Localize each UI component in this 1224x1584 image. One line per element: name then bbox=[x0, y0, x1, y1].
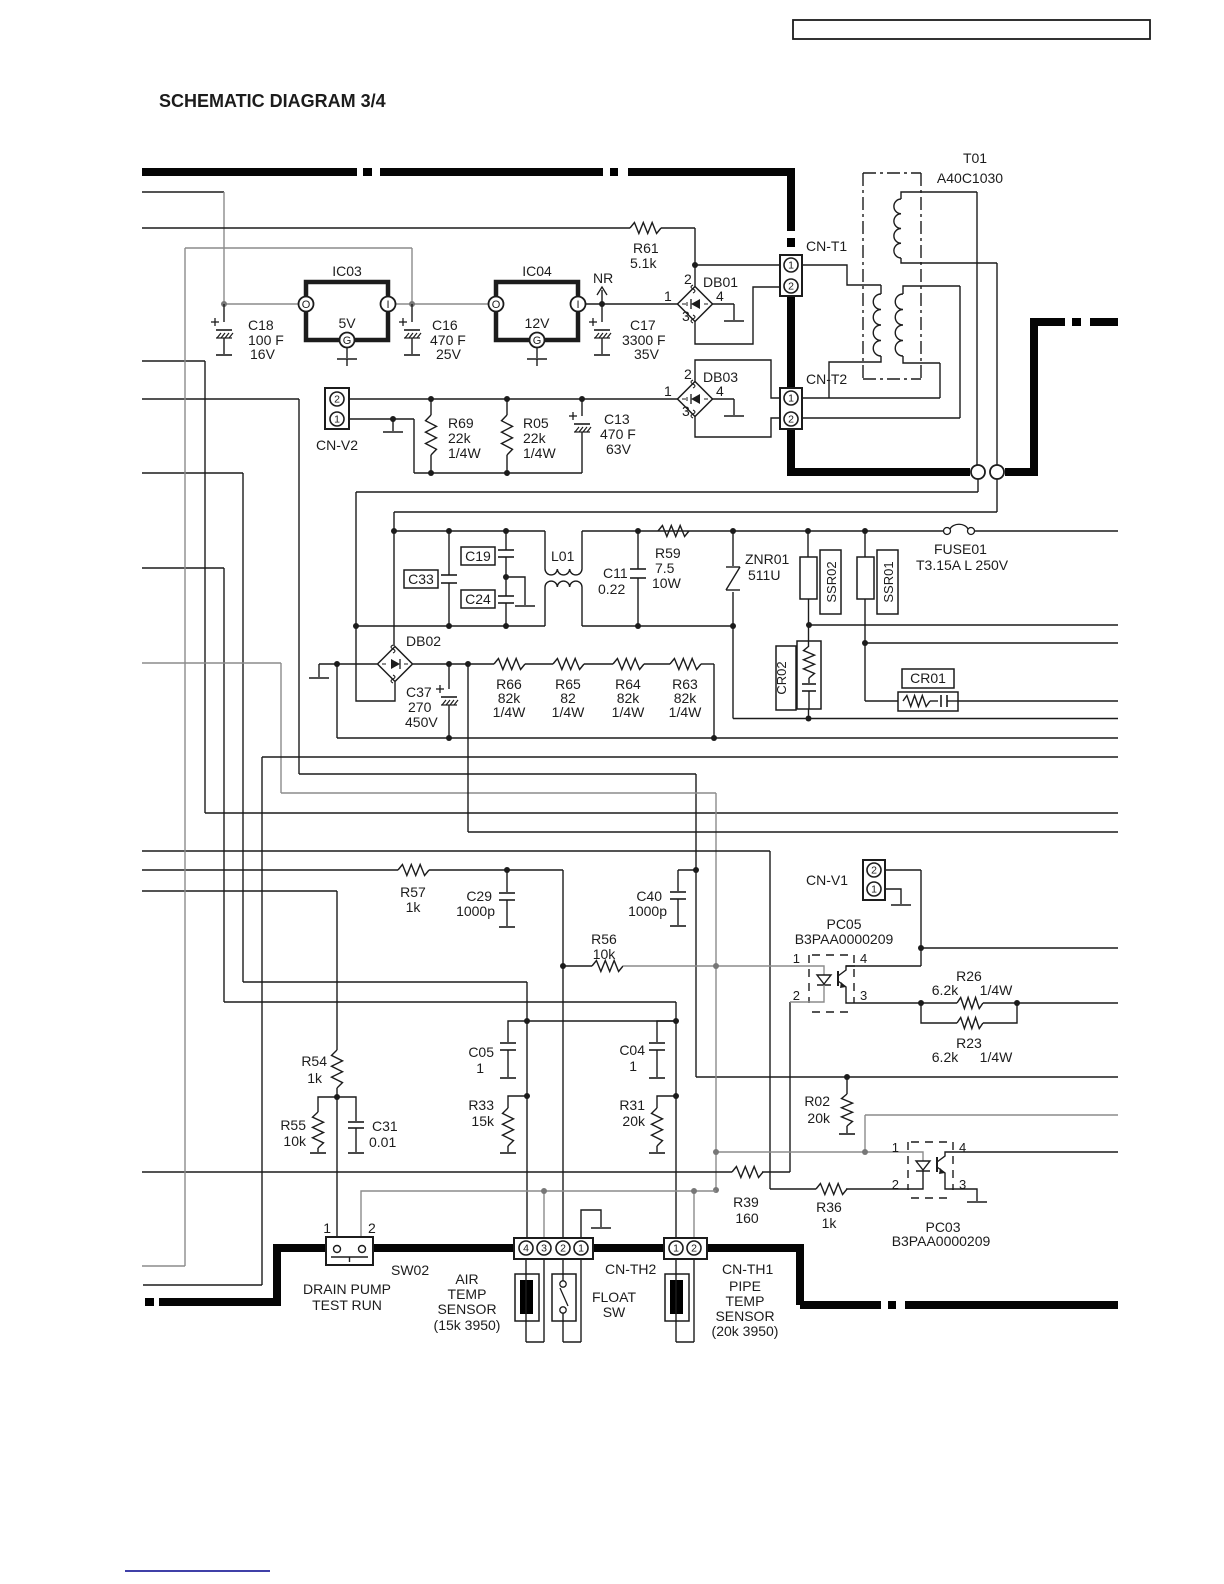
svg-text:SSR02: SSR02 bbox=[824, 561, 839, 602]
svg-text:10W: 10W bbox=[652, 575, 682, 591]
svg-text:TEMP: TEMP bbox=[726, 1293, 765, 1309]
svg-text:25V: 25V bbox=[436, 346, 462, 362]
svg-text:1/4W: 1/4W bbox=[980, 1049, 1013, 1065]
svg-text:3: 3 bbox=[541, 1243, 547, 1255]
svg-text:FUSE01: FUSE01 bbox=[934, 541, 987, 557]
svg-text:CN-TH1: CN-TH1 bbox=[722, 1261, 774, 1277]
svg-text:R26: R26 bbox=[956, 968, 982, 984]
svg-text:4: 4 bbox=[523, 1243, 529, 1255]
svg-text:6.2k: 6.2k bbox=[932, 982, 959, 998]
svg-text:10k: 10k bbox=[593, 946, 617, 962]
svg-text:PC05: PC05 bbox=[826, 916, 861, 932]
svg-text:R61: R61 bbox=[633, 240, 659, 256]
svg-text:1k: 1k bbox=[822, 1215, 838, 1231]
svg-text:1/4W: 1/4W bbox=[980, 982, 1013, 998]
svg-text:2: 2 bbox=[691, 1243, 697, 1255]
svg-text:0.22: 0.22 bbox=[598, 581, 625, 597]
svg-text:0.01: 0.01 bbox=[369, 1134, 396, 1150]
svg-text:R05: R05 bbox=[523, 415, 549, 431]
svg-text:22k: 22k bbox=[448, 430, 472, 446]
svg-text:C37: C37 bbox=[406, 684, 432, 700]
svg-text:1: 1 bbox=[788, 393, 794, 405]
svg-text:1: 1 bbox=[323, 1220, 331, 1236]
svg-text:TEMP: TEMP bbox=[448, 1286, 487, 1302]
svg-text:C04: C04 bbox=[619, 1042, 645, 1058]
svg-text:CN-T1: CN-T1 bbox=[806, 238, 847, 254]
svg-text:1/4W: 1/4W bbox=[612, 704, 645, 720]
svg-text:1/4W: 1/4W bbox=[448, 445, 481, 461]
svg-text:450V: 450V bbox=[405, 714, 438, 730]
svg-text:SW: SW bbox=[603, 1304, 626, 1320]
svg-text:15k: 15k bbox=[471, 1113, 495, 1129]
svg-text:C40: C40 bbox=[636, 888, 662, 904]
svg-text:35V: 35V bbox=[634, 346, 660, 362]
svg-text:2: 2 bbox=[368, 1220, 376, 1236]
svg-text:2: 2 bbox=[334, 394, 340, 406]
svg-text:R59: R59 bbox=[655, 545, 681, 561]
svg-text:1: 1 bbox=[871, 884, 877, 896]
svg-text:R36: R36 bbox=[816, 1199, 842, 1215]
svg-text:4: 4 bbox=[716, 288, 724, 304]
svg-text:I: I bbox=[576, 299, 579, 311]
svg-text:160: 160 bbox=[735, 1210, 759, 1226]
svg-text:T3.15A L 250V: T3.15A L 250V bbox=[916, 557, 1009, 573]
svg-text:1: 1 bbox=[629, 1058, 637, 1074]
svg-text:3: 3 bbox=[860, 988, 867, 1003]
svg-text:R69: R69 bbox=[448, 415, 474, 431]
svg-text:2: 2 bbox=[788, 281, 794, 293]
svg-text:1: 1 bbox=[673, 1243, 679, 1255]
svg-text:IC04: IC04 bbox=[522, 263, 552, 279]
svg-text:2: 2 bbox=[560, 1243, 566, 1255]
svg-text:C17: C17 bbox=[630, 317, 656, 333]
svg-text:1: 1 bbox=[334, 414, 340, 426]
svg-text:PIPE: PIPE bbox=[729, 1278, 761, 1294]
svg-text:1000p: 1000p bbox=[628, 903, 667, 919]
svg-text:I: I bbox=[386, 299, 389, 311]
svg-text:C19: C19 bbox=[465, 548, 491, 564]
svg-text:6.2k: 6.2k bbox=[932, 1049, 959, 1065]
svg-text:20k: 20k bbox=[622, 1113, 646, 1129]
svg-text:DB02: DB02 bbox=[406, 633, 441, 649]
svg-text:IC03: IC03 bbox=[332, 263, 362, 279]
svg-text:C16: C16 bbox=[432, 317, 458, 333]
svg-text:2: 2 bbox=[684, 271, 692, 287]
svg-text:2: 2 bbox=[684, 366, 692, 382]
svg-text:1000p: 1000p bbox=[456, 903, 495, 919]
svg-text:FLOAT: FLOAT bbox=[592, 1289, 637, 1305]
svg-text:SENSOR: SENSOR bbox=[715, 1308, 774, 1324]
svg-text:C18: C18 bbox=[248, 317, 274, 333]
svg-text:2: 2 bbox=[871, 865, 877, 877]
svg-text:C05: C05 bbox=[468, 1044, 494, 1060]
svg-text:1: 1 bbox=[793, 951, 800, 966]
svg-text:1/4W: 1/4W bbox=[669, 704, 702, 720]
svg-text:C13: C13 bbox=[604, 411, 630, 427]
svg-text:B3PAA0000209: B3PAA0000209 bbox=[795, 931, 894, 947]
svg-text:1: 1 bbox=[892, 1140, 899, 1155]
svg-text:1/4W: 1/4W bbox=[493, 704, 526, 720]
svg-text:R39: R39 bbox=[733, 1194, 759, 1210]
svg-text:1: 1 bbox=[476, 1060, 484, 1076]
svg-text:T01: T01 bbox=[963, 150, 987, 166]
svg-text:G: G bbox=[533, 335, 542, 347]
svg-text:SCHEMATIC DIAGRAM 3/4: SCHEMATIC DIAGRAM 3/4 bbox=[159, 91, 386, 111]
svg-text:R56: R56 bbox=[591, 931, 617, 947]
svg-text:2: 2 bbox=[892, 1177, 899, 1192]
svg-text:22k: 22k bbox=[523, 430, 547, 446]
svg-text:R54: R54 bbox=[301, 1053, 327, 1069]
svg-text:A40C1030: A40C1030 bbox=[937, 170, 1003, 186]
svg-text:C33: C33 bbox=[408, 571, 434, 587]
svg-text:CN-T2: CN-T2 bbox=[806, 371, 847, 387]
svg-text:G: G bbox=[343, 335, 352, 347]
svg-text:(15k 3950): (15k 3950) bbox=[434, 1317, 501, 1333]
svg-text:1: 1 bbox=[664, 288, 672, 304]
svg-text:20k: 20k bbox=[807, 1110, 831, 1126]
svg-text:R57: R57 bbox=[400, 884, 426, 900]
svg-text:4: 4 bbox=[716, 383, 724, 399]
svg-text:1k: 1k bbox=[307, 1070, 323, 1086]
svg-text:470 F: 470 F bbox=[600, 426, 636, 442]
svg-text:511U: 511U bbox=[748, 567, 780, 583]
svg-text:R31: R31 bbox=[619, 1097, 645, 1113]
svg-text:NR: NR bbox=[593, 270, 613, 286]
svg-text:CN-V2: CN-V2 bbox=[316, 437, 358, 453]
svg-text:1/4W: 1/4W bbox=[552, 704, 585, 720]
svg-text:SENSOR: SENSOR bbox=[437, 1301, 496, 1317]
svg-text:2: 2 bbox=[793, 988, 800, 1003]
svg-text:1: 1 bbox=[578, 1243, 584, 1255]
svg-text:7.5: 7.5 bbox=[655, 560, 675, 576]
svg-text:1/4W: 1/4W bbox=[523, 445, 556, 461]
svg-text:16V: 16V bbox=[250, 346, 276, 362]
svg-text:C11: C11 bbox=[603, 565, 628, 581]
svg-text:CR01: CR01 bbox=[910, 670, 946, 686]
svg-text:5.1k: 5.1k bbox=[630, 255, 657, 271]
svg-text:1: 1 bbox=[664, 383, 672, 399]
svg-text:12V: 12V bbox=[525, 315, 551, 331]
svg-text:ZNR01: ZNR01 bbox=[745, 551, 790, 567]
svg-text:B3PAA0000209: B3PAA0000209 bbox=[892, 1233, 991, 1249]
svg-text:10k: 10k bbox=[283, 1133, 307, 1149]
svg-text:R55: R55 bbox=[280, 1117, 306, 1133]
svg-text:AIR: AIR bbox=[455, 1271, 478, 1287]
svg-text:DRAIN PUMP: DRAIN PUMP bbox=[303, 1281, 391, 1297]
svg-text:R33: R33 bbox=[468, 1097, 494, 1113]
svg-text:O: O bbox=[302, 299, 311, 311]
svg-text:C24: C24 bbox=[465, 591, 491, 607]
svg-text:SW02: SW02 bbox=[391, 1262, 429, 1278]
svg-text:5V: 5V bbox=[338, 315, 356, 331]
svg-text:1: 1 bbox=[788, 260, 794, 272]
svg-text:3: 3 bbox=[682, 308, 690, 324]
svg-text:CR02: CR02 bbox=[774, 661, 789, 694]
svg-text:C31: C31 bbox=[372, 1118, 398, 1134]
svg-text:3: 3 bbox=[682, 403, 690, 419]
svg-text:1k: 1k bbox=[406, 899, 422, 915]
svg-text:63V: 63V bbox=[606, 441, 632, 457]
svg-text:CN-TH2: CN-TH2 bbox=[605, 1261, 657, 1277]
svg-text:R23: R23 bbox=[956, 1035, 982, 1051]
svg-text:(20k 3950): (20k 3950) bbox=[712, 1323, 779, 1339]
svg-text:SSR01: SSR01 bbox=[881, 561, 896, 602]
svg-text:CN-V1: CN-V1 bbox=[806, 872, 848, 888]
svg-text:O: O bbox=[492, 299, 501, 311]
svg-text:TEST RUN: TEST RUN bbox=[312, 1297, 382, 1313]
svg-text:270: 270 bbox=[408, 699, 432, 715]
svg-text:3: 3 bbox=[959, 1177, 966, 1192]
svg-text:R02: R02 bbox=[804, 1093, 830, 1109]
svg-text:2: 2 bbox=[788, 414, 794, 426]
svg-text:4: 4 bbox=[959, 1140, 966, 1155]
svg-text:L01: L01 bbox=[551, 548, 575, 564]
svg-text:4: 4 bbox=[860, 951, 867, 966]
svg-text:C29: C29 bbox=[466, 888, 492, 904]
